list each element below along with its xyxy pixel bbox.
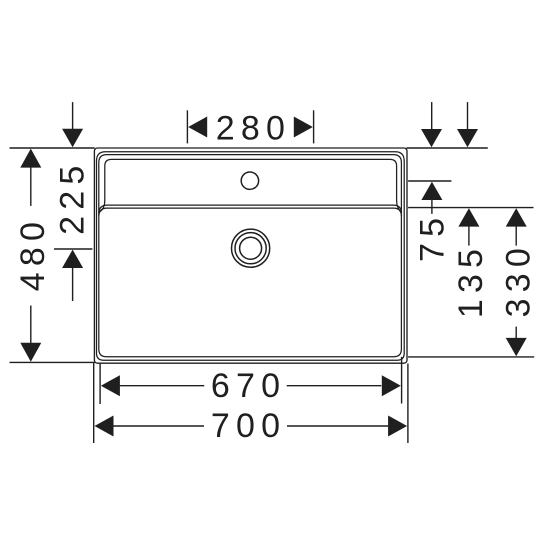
75 bottom up arrow <box>421 182 442 200</box>
480 top extension line <box>10 147 95 149</box>
330 down arrow <box>515 327 517 339</box>
330 up arrow <box>506 208 527 226</box>
drain outer circle <box>232 229 270 267</box>
svg-text:330: 330 <box>499 242 537 317</box>
basin rim outer line <box>97 152 405 361</box>
svg-text:225: 225 <box>53 160 91 235</box>
dimension 330 (right) <box>408 208 534 357</box>
480 bottom arrow <box>20 343 41 362</box>
670 left extension line <box>99 363 101 405</box>
dimension 670 (bottom) <box>100 357 402 404</box>
280 left tick <box>186 110 188 143</box>
bottom extension line right <box>408 356 534 358</box>
225 bottom tick line <box>54 248 92 250</box>
svg-text:700: 700 <box>211 407 286 445</box>
280 right tick <box>313 110 315 143</box>
700 right arrow <box>388 416 407 437</box>
drain middle circle <box>235 233 266 264</box>
280 right arrow <box>294 117 313 138</box>
dimension 135 (right) <box>408 102 533 246</box>
dimension 480 (left) <box>10 148 95 362</box>
dimension 700 (bottom) <box>94 363 408 444</box>
dimension 75 (right) <box>406 102 487 214</box>
top edge extension line right <box>406 147 487 149</box>
700 right extension line <box>407 364 409 444</box>
670 right arrow <box>382 375 401 396</box>
225 top arrow <box>72 102 74 130</box>
135 top down arrow <box>467 102 469 130</box>
480 top arrow <box>20 149 41 168</box>
480 bottom extension line <box>10 361 95 363</box>
ledge extension line <box>408 207 533 209</box>
faucet hole <box>241 172 258 189</box>
basin outer outline <box>94 148 407 363</box>
svg-text:670: 670 <box>211 367 286 405</box>
670 left arrow <box>101 375 120 396</box>
dimension 225 (left) <box>54 102 92 301</box>
tap deck inner outline <box>100 159 401 211</box>
dimension 280 (top) <box>187 110 313 143</box>
svg-text:75: 75 <box>413 212 451 262</box>
700 left arrow <box>95 416 114 437</box>
280 left arrow <box>188 117 207 138</box>
135 up arrow <box>458 208 479 226</box>
faucet center extension line <box>408 180 451 182</box>
700 left extension line <box>93 363 95 444</box>
svg-text:280: 280 <box>216 109 291 147</box>
basin rim inner line <box>99 155 402 357</box>
drain inner circle <box>240 237 262 259</box>
svg-text:135: 135 <box>452 243 490 318</box>
225 bottom arrow <box>62 250 83 268</box>
ledge upper line <box>99 205 402 213</box>
75 top down arrow <box>431 102 433 130</box>
670 right extension line <box>401 357 403 404</box>
svg-text:480: 480 <box>14 216 52 291</box>
ledge lower line <box>99 208 402 216</box>
